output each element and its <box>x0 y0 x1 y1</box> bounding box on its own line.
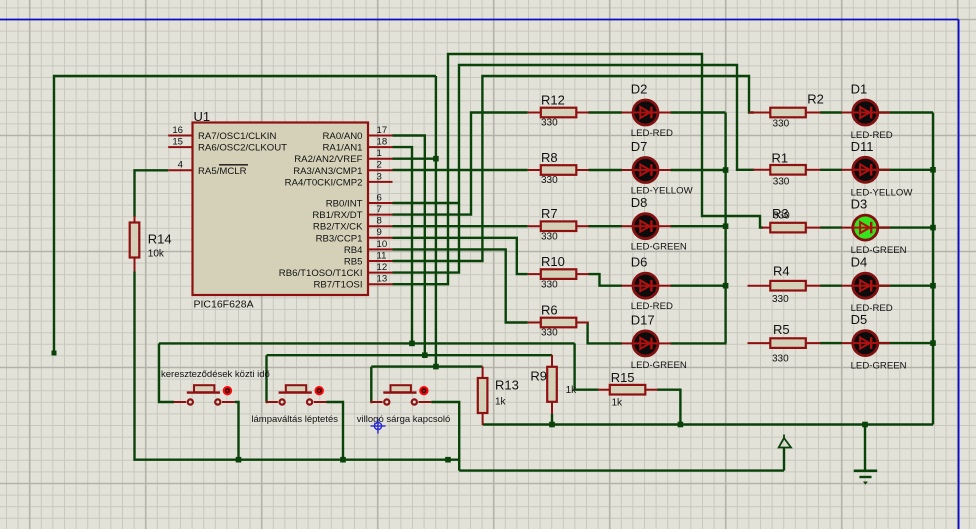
svg-text:2: 2 <box>377 160 382 171</box>
svg-text:U1: U1 <box>194 109 211 124</box>
svg-text:330: 330 <box>773 177 790 188</box>
svg-text:13: 13 <box>377 274 388 285</box>
svg-text:15: 15 <box>172 137 183 148</box>
svg-text:RA2/AN2/VREF: RA2/AN2/VREF <box>294 154 362 165</box>
svg-text:7: 7 <box>377 204 382 215</box>
svg-text:LED-RED: LED-RED <box>631 128 673 139</box>
svg-text:1k: 1k <box>566 385 578 396</box>
svg-text:R5: R5 <box>773 322 790 337</box>
svg-text:1k: 1k <box>495 397 507 408</box>
svg-text:R3: R3 <box>772 206 789 221</box>
svg-text:RB0/INT: RB0/INT <box>326 199 363 210</box>
svg-text:4: 4 <box>178 160 184 171</box>
svg-text:330: 330 <box>541 231 558 242</box>
svg-text:RB4: RB4 <box>344 245 363 256</box>
svg-text:RB2/TX/CK: RB2/TX/CK <box>313 222 363 233</box>
svg-text:10k: 10k <box>148 249 165 260</box>
svg-text:RB6/T1OSO/T1CKI: RB6/T1OSO/T1CKI <box>279 268 363 279</box>
svg-text:16: 16 <box>172 125 183 136</box>
svg-text:330: 330 <box>772 294 789 305</box>
svg-text:PIC16F628A: PIC16F628A <box>194 298 254 310</box>
svg-text:RA6/OSC2/CLKOUT: RA6/OSC2/CLKOUT <box>198 143 287 154</box>
svg-text:11: 11 <box>377 250 387 261</box>
svg-text:1: 1 <box>377 148 382 159</box>
svg-text:10: 10 <box>377 239 388 250</box>
svg-text:D6: D6 <box>631 255 648 270</box>
svg-text:9: 9 <box>377 227 382 238</box>
svg-text:LED-GREEN: LED-GREEN <box>851 361 907 372</box>
svg-text:R10: R10 <box>541 254 565 269</box>
svg-text:RB1/RX/DT: RB1/RX/DT <box>312 210 362 221</box>
svg-text:330: 330 <box>541 328 558 339</box>
svg-text:D1: D1 <box>851 82 868 97</box>
svg-text:LED-GREEN: LED-GREEN <box>631 242 687 253</box>
svg-text:D8: D8 <box>631 195 648 210</box>
svg-text:17: 17 <box>377 125 388 136</box>
svg-text:330: 330 <box>541 175 558 186</box>
svg-text:R1: R1 <box>772 151 789 166</box>
svg-text:12: 12 <box>377 262 388 273</box>
svg-text:D7: D7 <box>631 139 648 154</box>
svg-text:RA5/MCLR: RA5/MCLR <box>198 166 247 177</box>
svg-text:R8: R8 <box>541 150 558 165</box>
svg-text:lámpaváltás léptetés: lámpaváltás léptetés <box>251 414 338 425</box>
svg-text:R7: R7 <box>541 206 558 221</box>
svg-text:kereszteződések közti idő: kereszteződések közti idő <box>161 369 270 380</box>
svg-text:D11: D11 <box>851 139 874 154</box>
svg-text:RA3/AN3/CMP1: RA3/AN3/CMP1 <box>293 166 362 177</box>
svg-text:6: 6 <box>377 192 382 203</box>
svg-text:330: 330 <box>773 119 790 130</box>
svg-text:RB3/CCP1: RB3/CCP1 <box>316 233 363 244</box>
svg-text:R12: R12 <box>541 92 565 107</box>
svg-text:RA1/AN1: RA1/AN1 <box>323 143 363 154</box>
svg-text:330: 330 <box>541 118 558 129</box>
svg-text:D5: D5 <box>851 312 868 327</box>
svg-text:3: 3 <box>377 171 382 182</box>
svg-text:330: 330 <box>772 354 789 365</box>
svg-text:D3: D3 <box>851 197 868 212</box>
svg-text:R13: R13 <box>495 378 519 393</box>
svg-text:R15: R15 <box>611 370 635 385</box>
svg-text:D2: D2 <box>631 82 648 97</box>
svg-text:R9: R9 <box>530 369 547 384</box>
svg-text:R14: R14 <box>148 232 172 247</box>
svg-text:D17: D17 <box>631 312 655 327</box>
svg-text:D4: D4 <box>851 255 868 270</box>
svg-text:LED-RED: LED-RED <box>631 301 673 312</box>
svg-text:R4: R4 <box>773 264 790 279</box>
svg-text:RA0/AN0: RA0/AN0 <box>323 131 363 142</box>
svg-text:18: 18 <box>377 137 388 148</box>
svg-text:RA7/OSC1/CLKIN: RA7/OSC1/CLKIN <box>198 131 276 142</box>
svg-text:1k: 1k <box>612 398 624 409</box>
svg-text:RB7/T1OSI: RB7/T1OSI <box>313 280 362 291</box>
svg-text:RA4/T0CKI/CMP2: RA4/T0CKI/CMP2 <box>285 177 363 188</box>
svg-text:8: 8 <box>377 216 382 227</box>
svg-text:330: 330 <box>541 279 558 290</box>
svg-text:RB5: RB5 <box>344 257 363 268</box>
svg-text:LED-GREEN: LED-GREEN <box>631 360 687 371</box>
svg-text:R6: R6 <box>541 302 558 317</box>
svg-text:R2: R2 <box>807 92 824 107</box>
svg-text:villogó sárga kapcsoló: villogó sárga kapcsoló <box>357 414 450 425</box>
